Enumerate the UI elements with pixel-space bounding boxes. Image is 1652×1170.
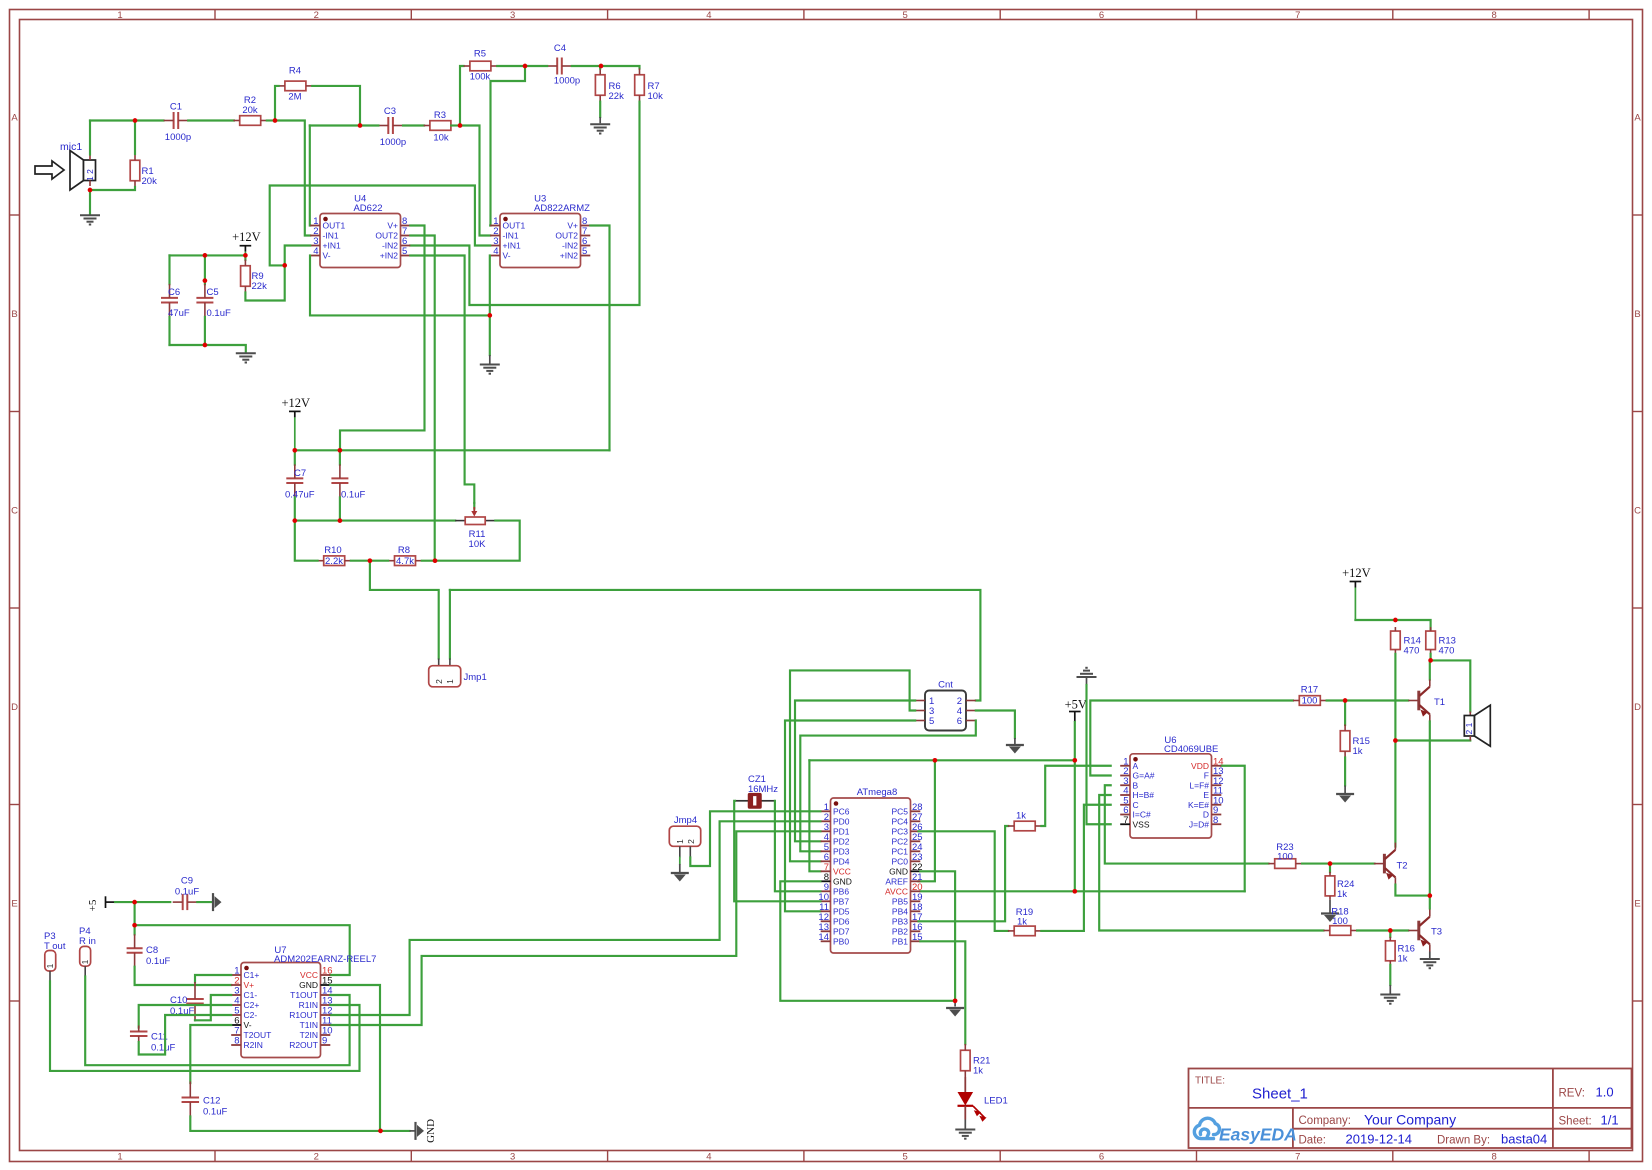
resistor R16 1k	[1389, 931, 1391, 938]
ground GND labelled	[410, 1130, 416, 1132]
svg-text:3: 3	[510, 1152, 515, 1163]
capacitor C6 47uF	[168, 255, 170, 284]
resistor R10 2.2k	[324, 556, 345, 566]
svg-text:8: 8	[1491, 1152, 1496, 1163]
wire R4 right to C3 node	[312, 86, 360, 126]
resistor R19 1k	[1014, 926, 1035, 936]
svg-text:47uF: 47uF	[168, 308, 190, 319]
capacitor C5 0.1uF	[204, 255, 206, 284]
svg-text:7: 7	[1123, 815, 1128, 826]
svg-text:V-: V-	[503, 251, 511, 261]
resistor R2	[240, 116, 261, 126]
svg-text:R5: R5	[474, 49, 486, 60]
svg-text:8: 8	[1213, 815, 1218, 826]
svg-text:PC6: PC6	[833, 807, 850, 817]
svg-text:OUT1: OUT1	[323, 221, 346, 231]
junction	[487, 313, 492, 318]
junction	[1427, 893, 1432, 898]
svg-text:100: 100	[1332, 916, 1348, 927]
resistor R4 feedback	[285, 81, 306, 91]
svg-text:T1: T1	[1434, 697, 1445, 708]
op-amp U4 AD622	[320, 214, 401, 268]
svg-text:10k: 10k	[648, 91, 664, 102]
svg-text:+5: +5	[87, 899, 99, 911]
wire Jmp1 pin1 to Cnt pin2 (long)	[449, 590, 451, 659]
svg-text:PB5: PB5	[892, 897, 908, 907]
svg-text:0.1uF: 0.1uF	[207, 308, 231, 319]
resistor R3	[430, 121, 451, 131]
svg-text:470: 470	[1404, 646, 1420, 657]
wire ATmega GND pin22 down	[920, 871, 955, 1001]
junction	[203, 278, 208, 283]
svg-text:R17: R17	[1301, 685, 1318, 696]
node R17-R15-T1	[1327, 699, 1346, 701]
wire C8 bottom to U7 V+	[135, 967, 232, 985]
svg-text:PC0: PC0	[891, 857, 908, 867]
svg-text:5: 5	[929, 716, 934, 727]
wire left leg to R10	[295, 521, 318, 561]
svg-text:100: 100	[1302, 696, 1318, 707]
ground under R6	[599, 102, 601, 117]
svg-text:CD4069UBE: CD4069UBE	[1164, 744, 1218, 755]
connector Jmp1	[438, 659, 440, 666]
junction	[1388, 928, 1393, 933]
ground right of C9	[212, 893, 214, 911]
wire U7 C2+ to C11 top	[139, 1005, 232, 1028]
wire R7 bottom to U4 pin6 net	[410, 102, 639, 305]
svg-text:0.1uF: 0.1uF	[203, 1107, 227, 1118]
svg-text:5: 5	[903, 10, 908, 21]
wire Jmp4 pin2 to ATmega PC6	[690, 811, 820, 866]
crystal CZ1 16MHz	[735, 800, 749, 802]
svg-text:LED1: LED1	[984, 1096, 1008, 1107]
wire +12V rail	[170, 254, 246, 256]
svg-text:1k: 1k	[1398, 954, 1408, 965]
svg-text:8: 8	[234, 1036, 239, 1047]
wire C1 to R2	[188, 119, 234, 121]
svg-text:C: C	[1133, 800, 1139, 810]
svg-text:VDD: VDD	[1191, 761, 1209, 771]
svg-text:4: 4	[706, 10, 711, 21]
connector Cnt	[925, 691, 966, 731]
wire to T1 base	[1345, 699, 1408, 701]
junction	[1343, 698, 1348, 703]
svg-text:V-: V-	[323, 251, 331, 261]
wire C3 node to U4 pin1	[310, 124, 360, 126]
svg-text:4: 4	[493, 246, 498, 257]
svg-text:1/1: 1/1	[1601, 1113, 1619, 1128]
svg-text:PD4: PD4	[833, 857, 850, 867]
junction	[933, 758, 938, 763]
svg-text:PC3: PC3	[891, 827, 908, 837]
wire ATmega PB3 to 1k	[919, 826, 1009, 921]
svg-text:22k: 22k	[609, 91, 625, 102]
svg-text:PD0: PD0	[833, 817, 850, 827]
svg-text:Cnt: Cnt	[938, 680, 953, 691]
wire R11 right to R8 node	[435, 521, 520, 561]
svg-text:1k: 1k	[973, 1066, 983, 1077]
junction	[378, 1129, 383, 1134]
svg-text:GND: GND	[299, 980, 318, 990]
svg-text:R8: R8	[398, 545, 410, 556]
svg-text:B: B	[11, 309, 17, 320]
ground MCU	[946, 1007, 964, 1009]
resistor R9	[241, 266, 251, 287]
svg-text:+5V: +5V	[1065, 698, 1087, 712]
wire ATmega PD0 to U7 R1OUT	[330, 821, 820, 1015]
svg-text:T1IN: T1IN	[300, 1020, 318, 1030]
junction	[358, 123, 363, 128]
svg-text:K=E#: K=E#	[1188, 800, 1209, 810]
wire mic1 top to C1 node	[89, 121, 91, 155]
wire U6 pin3 to R23	[1105, 785, 1269, 863]
svg-text:C1: C1	[170, 102, 182, 113]
svg-text:GND: GND	[889, 867, 908, 877]
svg-text:R4: R4	[289, 66, 301, 77]
svg-text:4.7k: 4.7k	[396, 556, 414, 567]
svg-text:R1OUT: R1OUT	[289, 1010, 318, 1020]
svg-text:PD7: PD7	[833, 927, 850, 937]
svg-text:C3: C3	[384, 106, 396, 117]
junction	[1328, 861, 1333, 866]
capacitor C12 0.1uF	[182, 1097, 200, 1099]
svg-text:6: 6	[1099, 10, 1104, 21]
svg-text:2M: 2M	[288, 92, 301, 103]
op-amp U3 AD822ARMZ	[500, 214, 581, 268]
svg-text:6: 6	[1099, 1152, 1104, 1163]
svg-text:PD5: PD5	[833, 907, 850, 917]
svg-text:C6: C6	[168, 287, 180, 298]
svg-text:C1+: C1+	[244, 970, 260, 980]
svg-text:T3: T3	[1431, 927, 1442, 938]
svg-text:0.1uF: 0.1uF	[175, 887, 199, 898]
node +5 down	[134, 902, 136, 925]
svg-text:0.1uF: 0.1uF	[341, 490, 365, 501]
wire R5 node to U3 pin1	[490, 66, 525, 226]
svg-text:1000p: 1000p	[554, 76, 580, 87]
svg-text:PD2: PD2	[833, 837, 850, 847]
wire U3 pin4 V- down to ground	[489, 256, 491, 356]
node MCU ground	[954, 1001, 956, 1007]
junction	[1072, 889, 1077, 894]
svg-text:10k: 10k	[433, 133, 449, 144]
svg-text:1k: 1k	[1337, 889, 1347, 900]
svg-text:GND: GND	[425, 1119, 437, 1143]
svg-text:-IN2: -IN2	[382, 241, 398, 251]
junction	[243, 253, 248, 258]
svg-text:16MHz: 16MHz	[748, 784, 778, 795]
svg-text:OUT2: OUT2	[375, 231, 398, 241]
+12V rail node	[244, 255, 246, 260]
svg-text:PC4: PC4	[891, 817, 908, 827]
node R13 bottom	[1430, 654, 1432, 661]
resistor R23 100	[1275, 859, 1296, 869]
svg-text:T2OUT: T2OUT	[244, 1030, 272, 1040]
node R2 out	[267, 119, 275, 121]
wire R13 to speaker top	[1431, 660, 1471, 711]
svg-text:PB3: PB3	[892, 917, 908, 927]
wire R9 bottom to bias node	[245, 265, 284, 300]
capacitor C9 0.1uF	[182, 894, 184, 910]
svg-text:PB6: PB6	[833, 887, 849, 897]
svg-text:4: 4	[706, 1152, 711, 1163]
junction	[368, 558, 373, 563]
+5V rail to VCC	[809, 759, 1074, 761]
capacitor C11 0.1uF	[130, 1031, 148, 1033]
svg-text:-IN2: -IN2	[562, 241, 578, 251]
svg-text:Jmp1: Jmp1	[464, 672, 487, 683]
svg-text:R10: R10	[324, 545, 341, 556]
svg-text:1000p: 1000p	[380, 137, 406, 148]
svg-text:PC5: PC5	[891, 807, 908, 817]
junction	[292, 518, 297, 523]
wire +5V to AREF	[919, 760, 935, 881]
microphone mic1	[35, 161, 64, 179]
inverter U6 CD4069UBE	[1130, 754, 1212, 838]
svg-text:AVCC: AVCC	[885, 887, 908, 897]
svg-text:C2+: C2+	[244, 1000, 260, 1010]
svg-text:1: 1	[117, 10, 122, 21]
svg-text:+IN1: +IN1	[323, 241, 341, 251]
resistor R21 1k	[961, 1050, 971, 1071]
resistor R15 1k	[1344, 701, 1346, 726]
wire R13 node to T1 collector	[1429, 660, 1432, 679]
svg-text:PD3: PD3	[833, 847, 850, 857]
svg-text:0.1uF: 0.1uF	[151, 1043, 175, 1054]
svg-text:0.1uF: 0.1uF	[146, 956, 170, 967]
wire U6 pin4 to R18	[1099, 795, 1323, 931]
svg-text:5: 5	[402, 246, 407, 257]
junction	[1428, 658, 1433, 663]
svg-text:20k: 20k	[242, 105, 258, 116]
wire node to Jmp1 pin2	[370, 561, 439, 659]
svg-text:V+: V+	[387, 221, 398, 231]
junction	[133, 118, 138, 123]
svg-text:T2IN: T2IN	[300, 1030, 318, 1040]
resistor R17 100	[1299, 696, 1320, 706]
resistor R13 470	[1426, 631, 1436, 650]
svg-text:+IN2: +IN2	[380, 251, 398, 261]
wire U6 pin2 to R17	[1090, 701, 1293, 776]
svg-text:2: 2	[314, 10, 319, 21]
wire C4 node to R7	[601, 66, 640, 69]
svg-text:100k: 100k	[470, 72, 491, 83]
svg-text:1k: 1k	[1017, 917, 1027, 928]
svg-text:2.2k: 2.2k	[325, 556, 343, 567]
svg-text:V-: V-	[244, 1020, 252, 1030]
svg-text:PB7: PB7	[833, 897, 849, 907]
capacitor C10 0.1uF	[195, 975, 231, 982]
node R5-C4	[497, 65, 525, 67]
resistor R5	[470, 61, 491, 71]
svg-text:2019-12-14: 2019-12-14	[1346, 1132, 1413, 1147]
svg-text:D: D	[1634, 702, 1641, 713]
wire CZ1 left to PB7	[734, 801, 820, 902]
svg-text:10K: 10K	[469, 539, 487, 550]
transistor T1	[1417, 691, 1420, 711]
wire U7 V- to C12	[190, 1025, 231, 1083]
svg-text:OUT1: OUT1	[503, 221, 526, 231]
svg-text:PB0: PB0	[833, 937, 849, 947]
svg-text:5: 5	[903, 1152, 908, 1163]
svg-text:AREF: AREF	[885, 877, 908, 887]
wire U7 GND pin15 to gnd rail	[330, 985, 380, 1131]
svg-text:R2OUT: R2OUT	[289, 1040, 318, 1050]
ground at Cnt pin4	[1014, 738, 1016, 745]
wire Cnt pin4 to ground	[976, 711, 1015, 739]
svg-text:B: B	[1634, 309, 1640, 320]
node R23-R24-T2	[1302, 863, 1330, 865]
potentiometer R11 10K	[455, 520, 465, 522]
junction	[1393, 618, 1398, 623]
svg-text:C2-: C2-	[244, 1010, 258, 1020]
connector Jmp4	[669, 826, 700, 846]
svg-text:A: A	[1634, 113, 1641, 124]
EasyEDA logo	[1194, 1118, 1219, 1138]
wire node to U4 pin2	[275, 121, 310, 236]
ground under R15	[1336, 793, 1354, 795]
svg-text:R3: R3	[434, 110, 446, 121]
svg-text:TITLE:: TITLE:	[1195, 1076, 1225, 1087]
wire R14 bottom to T2 collector	[1394, 654, 1396, 847]
svg-text:PB1: PB1	[892, 937, 908, 947]
ground at T3 emitter	[1429, 952, 1431, 959]
svg-text:A: A	[1133, 761, 1139, 771]
junction	[88, 188, 93, 193]
wire U4 pin3 bias net to U3 pin3	[285, 246, 311, 266]
svg-text:4: 4	[313, 246, 318, 257]
svg-text:J=D#: J=D#	[1189, 819, 1209, 829]
junction	[1072, 758, 1077, 763]
capacitor C3	[387, 117, 389, 134]
svg-text:ADM202EARNZ-REEL7: ADM202EARNZ-REEL7	[274, 954, 376, 965]
+5V leg to AVCC rail	[1074, 760, 1076, 891]
transistor T3	[1417, 921, 1420, 941]
svg-text:T1OUT: T1OUT	[290, 990, 318, 1000]
svg-text:+IN1: +IN1	[503, 241, 521, 251]
svg-text:OUT2: OUT2	[555, 231, 578, 241]
wire P3 to U7 R1IN	[50, 981, 360, 1071]
svg-text:ATmega8: ATmega8	[857, 787, 897, 798]
svg-text:PB4: PB4	[892, 907, 908, 917]
capacitor C4	[556, 58, 558, 75]
wire R4 left to node	[275, 86, 279, 121]
svg-text:mic1: mic1	[60, 141, 82, 153]
svg-text:G=A#: G=A#	[1133, 771, 1155, 781]
transistor T2	[1383, 854, 1386, 874]
svg-text:9: 9	[322, 1036, 327, 1047]
wire Cnt pin1 to ATmega PD2	[795, 701, 915, 842]
svg-text:1.0: 1.0	[1596, 1085, 1614, 1100]
svg-text:1000p: 1000p	[165, 132, 191, 143]
svg-text:7: 7	[1295, 10, 1300, 21]
svg-text:+IN2: +IN2	[560, 251, 578, 261]
node R3 out	[451, 124, 460, 126]
wire R3 node up to R5	[460, 66, 464, 126]
ground (inverted) above U6 to VSS	[1077, 676, 1097, 678]
svg-text:1k: 1k	[1353, 746, 1363, 757]
svg-text:PB2: PB2	[892, 927, 908, 937]
svg-text:2: 2	[314, 1152, 319, 1163]
svg-text:5: 5	[582, 246, 587, 257]
svg-text:3: 3	[510, 10, 515, 21]
wire ATmega GND pin8 to ground net	[780, 881, 955, 1001]
ground rail under C5 C6	[170, 345, 246, 352]
svg-text:VSS: VSS	[1133, 819, 1150, 829]
capacitor 0.1uF (C7b)	[339, 450, 341, 464]
svg-text:+12V: +12V	[232, 230, 261, 244]
svg-text:C1-: C1-	[244, 990, 258, 1000]
svg-text:D: D	[11, 702, 18, 713]
AVCC +5V rail to U6 VDD	[920, 890, 1244, 892]
junction	[599, 64, 604, 69]
svg-text:2: 2	[434, 679, 444, 684]
mid rail	[295, 520, 455, 522]
svg-text:H=B#: H=B#	[1133, 790, 1155, 800]
junction	[282, 263, 287, 268]
wire Cnt pin6 to ATmega PD3	[800, 721, 976, 852]
svg-text:Jmp4: Jmp4	[674, 815, 697, 826]
svg-text:AD622: AD622	[353, 203, 382, 214]
wire U4 pin4 V- to ground net	[310, 256, 490, 316]
svg-text:PC1: PC1	[891, 847, 908, 857]
IC U7 ADM202EARNZ-REEL7	[241, 963, 321, 1058]
svg-text:A: A	[11, 113, 18, 124]
node R8 out	[422, 560, 435, 562]
svg-text:470: 470	[1439, 646, 1455, 657]
svg-text:R2IN: R2IN	[244, 1040, 263, 1050]
svg-text:E: E	[1634, 899, 1640, 910]
wire C11 bottom to U7 C2-	[139, 1015, 232, 1055]
gnd rail bottom	[190, 1117, 409, 1131]
wire CZ1 right to PB6	[775, 801, 821, 892]
svg-text:+12V: +12V	[1342, 566, 1371, 580]
svg-text:-IN1: -IN1	[503, 231, 519, 241]
title block	[1189, 1069, 1632, 1149]
wire Cnt pin3 to ATmega PD4	[790, 670, 915, 861]
junction	[1393, 738, 1398, 743]
wire 1k to U6 pin1	[1041, 766, 1110, 826]
svg-text:C: C	[11, 506, 18, 517]
node R10-R8	[351, 560, 370, 562]
wire ATmega PB1 to R21	[920, 941, 965, 1044]
wire T2 emitter to main emitter line	[1395, 885, 1429, 896]
svg-text:VCC: VCC	[300, 970, 318, 980]
svg-text:basta04: basta04	[1501, 1132, 1547, 1147]
svg-text:L=F#: L=F#	[1189, 780, 1209, 790]
wire ATmega PD1 to P3	[330, 831, 820, 1025]
capacitor C7 0.47uF	[294, 450, 296, 464]
MCU ATmega8	[831, 798, 911, 953]
junction	[458, 123, 463, 128]
ground below U3	[489, 355, 491, 364]
svg-text:PD1: PD1	[833, 827, 850, 837]
svg-text:I=C#: I=C#	[1133, 810, 1151, 820]
resistor 1k to U6 pin A	[1014, 821, 1035, 831]
svg-text:T2: T2	[1397, 861, 1408, 872]
junction	[203, 253, 208, 258]
svg-text:0.47uF: 0.47uF	[285, 490, 315, 501]
resistor R24 1k	[1329, 864, 1331, 873]
wire P4 to U7 T1OUT	[85, 977, 349, 1066]
svg-text:Sheet:: Sheet:	[1559, 1116, 1592, 1128]
svg-text:C7: C7	[294, 468, 306, 479]
svg-text:20k: 20k	[142, 176, 158, 187]
svg-text:E: E	[11, 899, 17, 910]
resistor R18 100	[1330, 926, 1351, 936]
ground under R24	[1321, 912, 1339, 914]
svg-text:1: 1	[445, 679, 455, 684]
